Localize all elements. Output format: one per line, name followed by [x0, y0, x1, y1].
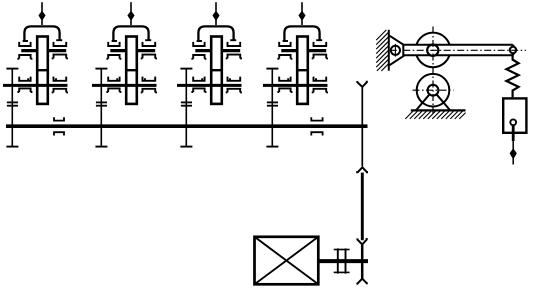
weight arrow: [512, 141, 514, 165]
center line lever: [390, 49, 526, 51]
lever arm: [403, 45, 515, 55]
upper shaft segment: [361, 87, 363, 166]
spindle unit 1: [3, 2, 68, 146]
ground hatching: [405, 110, 465, 119]
motor shaft: [318, 259, 368, 263]
fixed wall edge: [388, 30, 390, 71]
cam circle lower: [417, 74, 450, 107]
spring: [506, 53, 518, 97]
cam support legs: [416, 90, 450, 110]
center line vertical: [432, 27, 434, 115]
motor M1: [255, 237, 319, 284]
pivot bracket A: [390, 36, 405, 65]
lever mid pin: [427, 45, 438, 56]
pivot pin: [391, 46, 400, 55]
weight stub: [512, 125, 515, 141]
vertical drive shaft: [356, 82, 368, 284]
middle shaft segment: [361, 173, 364, 241]
spindle unit 2: [92, 2, 157, 146]
bottom claw fork: [356, 279, 367, 284]
lever end pin: [510, 47, 516, 53]
roller circle upper: [416, 33, 451, 68]
coupling: [334, 248, 350, 273]
claw joint lower: [356, 239, 367, 244]
claw joint upper: [356, 167, 368, 172]
fixed wall hatching: [376, 30, 388, 71]
top claw fork: [356, 82, 368, 87]
main line shaft: [6, 124, 368, 128]
spindle unit 4: [263, 2, 328, 146]
weight pin: [510, 119, 516, 125]
spindle unit 3: [177, 2, 242, 146]
center line cam: [413, 89, 454, 91]
cam pin: [428, 85, 439, 96]
line shaft gear brackets right: [311, 117, 322, 135]
ground line: [411, 109, 466, 111]
line shaft gear brackets left: [54, 117, 64, 135]
lower shaft segment: [361, 244, 364, 279]
weight block: [503, 98, 526, 132]
